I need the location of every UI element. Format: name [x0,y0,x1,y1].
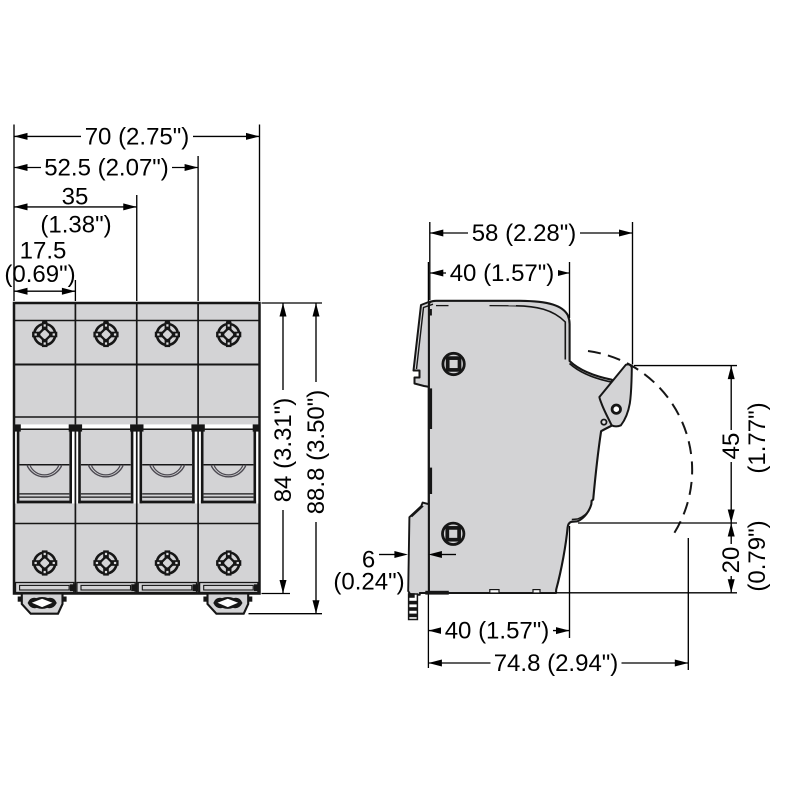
dim 40 (1.57") bottom [428,630,569,632]
front right extension lines [262,302,323,304]
module separator segments through recess [74,424,76,503]
fuse carrier module 4 [201,427,256,503]
lid seam: front curve inner line [516,306,565,360]
latch seam line [412,506,424,517]
svg-text:(1.38"): (1.38") [40,212,111,239]
lower terminal [443,523,464,544]
dim 74.8 (2.94") [428,662,688,664]
svg-text:40 (1.57"): 40 (1.57") [445,618,550,645]
screw arm merges into band line [42,321,231,324]
rail plane extension line [427,262,429,668]
top terminal screws row [32,322,241,347]
dim 40 (1.57") top [430,272,570,274]
svg-text:40 (1.57"): 40 (1.57") [450,260,555,287]
fuse carrier module 3 [140,427,195,503]
swing dashed arc [588,351,692,535]
fuse handle [599,364,631,426]
dim 45 (1.77") vertical [730,366,732,523]
rail channel tick bars [429,309,432,316]
fuse carrier module 1 [17,427,72,503]
lid seam: top-left fin inner line [417,304,434,369]
side right extension lines [634,365,737,367]
svg-text:45: 45 [718,433,745,460]
label slot module 1 [16,583,76,593]
dim 88.8 (3.50") vertical [315,303,317,614]
dim 58 (2.28") [430,232,633,234]
upper terminal [443,353,464,374]
bottom latch clip hatched [408,593,417,619]
label slot module 4 [200,583,260,593]
svg-text:70 (2.75"): 70 (2.75") [85,123,190,150]
front horizontal panel lines [14,321,260,524]
front body [14,303,260,594]
svg-text:(0.69"): (0.69") [4,261,75,288]
right DIN rail foot [203,594,252,614]
front view extension lines [13,125,15,302]
socket seam double curve [570,364,613,383]
side bottom extension lines [569,526,571,638]
side body [429,301,613,593]
carrier latch caps [14,424,260,431]
svg-text:20: 20 [718,547,745,574]
label slot module 2 [77,583,136,593]
bottom rail ledge [425,591,449,595]
svg-text:52.5 (2.07"): 52.5 (2.07") [44,155,169,182]
svg-text:(0.79"): (0.79") [744,520,771,591]
fuse carriers (4 modules) [14,424,260,503]
fuse carrier module 2 [78,427,133,503]
dim 52.5 (2.07") [14,167,198,169]
svg-text:(1.77"): (1.77") [744,402,771,473]
dim 17.5 / (0.69") [14,290,75,292]
dim 70 (2.75") [14,135,260,137]
dim 35 / (1.38") [14,206,137,208]
svg-text:(0.24"): (0.24") [333,569,404,596]
lower front jog seam [572,506,591,520]
lid seam: top edge notches [436,305,449,307]
dim 20 (0.79") vertical [730,523,732,593]
dim 84 (3.31") vertical [282,303,284,594]
svg-text:88.8 (3.50"): 88.8 (3.50") [303,390,330,515]
small pin [601,420,606,425]
left DIN rail foot [18,594,67,614]
carrier recess slot band [15,424,258,503]
bottom edge notches [490,590,499,593]
bottom screws row [32,550,241,575]
svg-text:58 (2.28"): 58 (2.28") [472,220,577,247]
svg-text:74.8 (2.94"): 74.8 (2.94") [494,650,619,677]
label slot module 3 [138,583,198,593]
handle pivot [612,405,620,413]
bottom label slots (4 modules) [16,583,260,593]
dim 6 (0.24") [379,554,395,556]
svg-text:35: 35 [62,184,89,211]
svg-text:84 (3.31"): 84 (3.31") [270,398,297,503]
module separator lines [75,303,198,594]
lid seam double lines [417,304,613,519]
rear top DIN hook fin [414,302,431,388]
rear bottom DIN latch [408,503,429,595]
side view top extension lines [429,222,431,300]
